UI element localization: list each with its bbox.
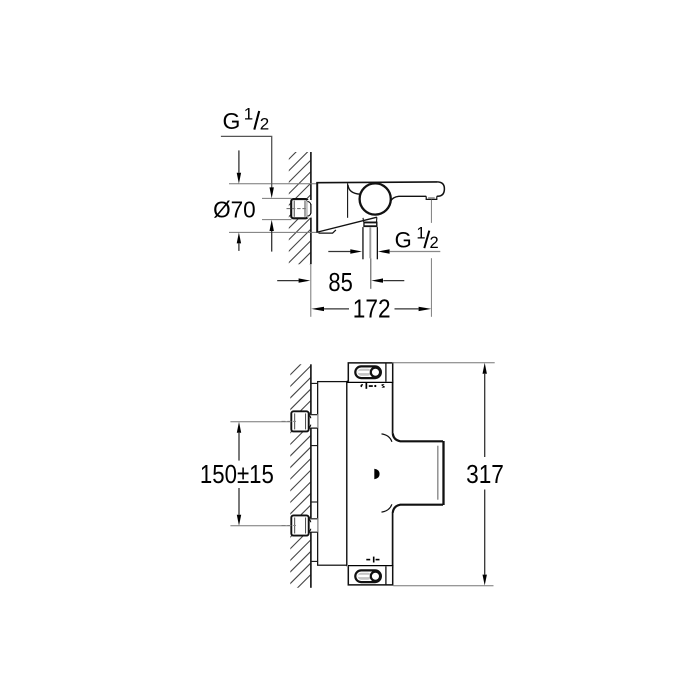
spout collar arc top (382, 434, 392, 442)
neck curve between escutcheon and knob (348, 185, 360, 194)
spout underside (391, 196, 427, 201)
extension line: wall face down to 172 dimension (310, 264, 312, 317)
extension line: pipe centre for 85 dim (370, 258, 372, 289)
bottom cap grip pill (355, 570, 381, 582)
spout bottom (393, 505, 443, 513)
upper union centerline (282, 420, 297, 422)
body bottom joint (thick) (348, 565, 393, 568)
spout nose (rounded end) (437, 182, 445, 196)
leader for G 1/2 top-left (221, 136, 272, 188)
mounting ticks between wall and plate (312, 382, 317, 384)
dimension 172 (311, 307, 324, 311)
lower union neck (lower view) (308, 518, 318, 532)
body/escutcheon joint line (347, 183, 349, 218)
extension lines: escutcheon diameter (for Ø70) (229, 183, 316, 185)
tiny markings under top cap (360, 383, 384, 389)
spout (lower view) top (393, 433, 443, 441)
lower arrow of G 1/2 nut dimension (270, 220, 274, 231)
svg-text:85: 85 (328, 267, 352, 297)
escutcheon back edge (316, 183, 318, 233)
body left edge (346, 382, 348, 567)
svg-text:1: 1 (244, 105, 253, 124)
wall hatching (top view) (282, 132, 316, 293)
body top joint (thick) (347, 381, 394, 383)
thermostat knob (circle) (360, 183, 391, 214)
dimension 150±15 (230, 421, 291, 423)
pipe G 1/2 dimension (arrows at pipe) (328, 251, 350, 253)
escutcheon foot (319, 230, 336, 233)
tiny markings above bottom joint (366, 557, 379, 563)
svg-text:2: 2 (260, 114, 269, 133)
svg-text:150±15: 150±15 (200, 459, 274, 489)
svg-text:G: G (223, 108, 241, 134)
top cap (temperature handle) (348, 363, 392, 382)
dimension 317 (392, 362, 495, 364)
svg-text:G: G (395, 228, 412, 253)
aerator nub under spout (426, 196, 437, 199)
svg-text:172: 172 (353, 294, 391, 324)
extension lines: union nut (for G 1/2 top-left) (262, 197, 292, 199)
extension line: aerator centre for 172 dim (430, 200, 432, 223)
mixer top edge (316, 181, 437, 184)
body right edge (broken at spout) (392, 382, 394, 434)
spout inner line (437, 446, 439, 500)
svg-text:Ø70: Ø70 (213, 196, 256, 222)
outlet connector below knob (363, 217, 377, 221)
outlet nut (363, 222, 377, 228)
union nut (top view) (291, 199, 308, 218)
lower union nut (lower view) (291, 515, 308, 535)
bottom cap (flow handle) (348, 566, 392, 585)
aerator dot (lower view) (374, 469, 379, 480)
svg-text:1: 1 (416, 224, 425, 242)
spout collar arc bottom (382, 504, 392, 512)
shower outlet pipe (362, 227, 364, 259)
label G 1/2 (top-left) (223, 105, 270, 134)
body bottom slant (318, 217, 377, 232)
upper union nut (lower view) (291, 411, 308, 431)
spout right edge (442, 441, 444, 505)
Ø70 dimension arrows (238, 150, 240, 172)
dimension 85 (277, 280, 299, 282)
top cap grip pill (355, 366, 381, 378)
lower union centerline (282, 525, 297, 527)
union nut neck to wall (top view) (307, 200, 312, 218)
union nut centerline (dash-dot, top view) (287, 208, 310, 210)
svg-text:2: 2 (430, 234, 439, 252)
wall hatching (lower view) (283, 348, 317, 602)
svg-text:317: 317 (466, 459, 504, 489)
wall face line (lower view, broken at unions) (310, 364, 312, 414)
back plate (318, 382, 347, 566)
upper union neck (lower view) (308, 414, 318, 428)
wall face line (top view) (310, 152, 312, 202)
label G 1/2 (right) (395, 224, 439, 252)
